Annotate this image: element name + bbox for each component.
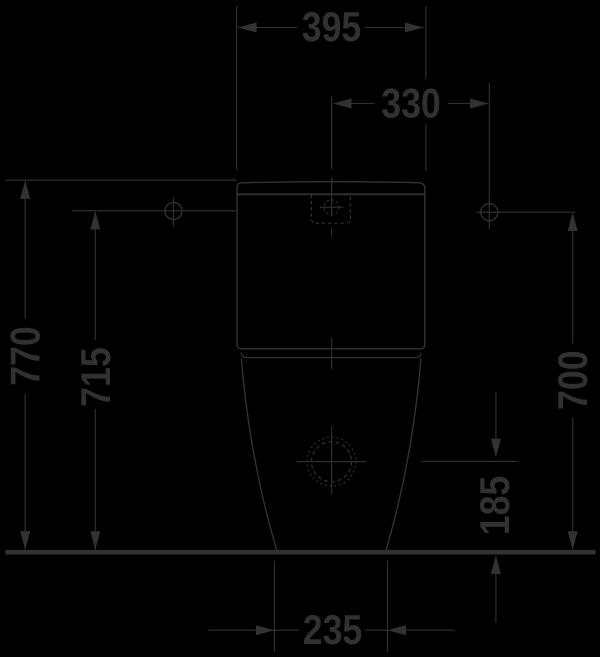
svg-text:715: 715 (73, 347, 119, 407)
svg-text:235: 235 (303, 607, 363, 653)
svg-text:330: 330 (381, 81, 441, 127)
svg-text:395: 395 (302, 5, 362, 51)
svg-text:700: 700 (550, 350, 596, 410)
svg-text:770: 770 (3, 326, 49, 386)
svg-text:185: 185 (472, 476, 518, 536)
